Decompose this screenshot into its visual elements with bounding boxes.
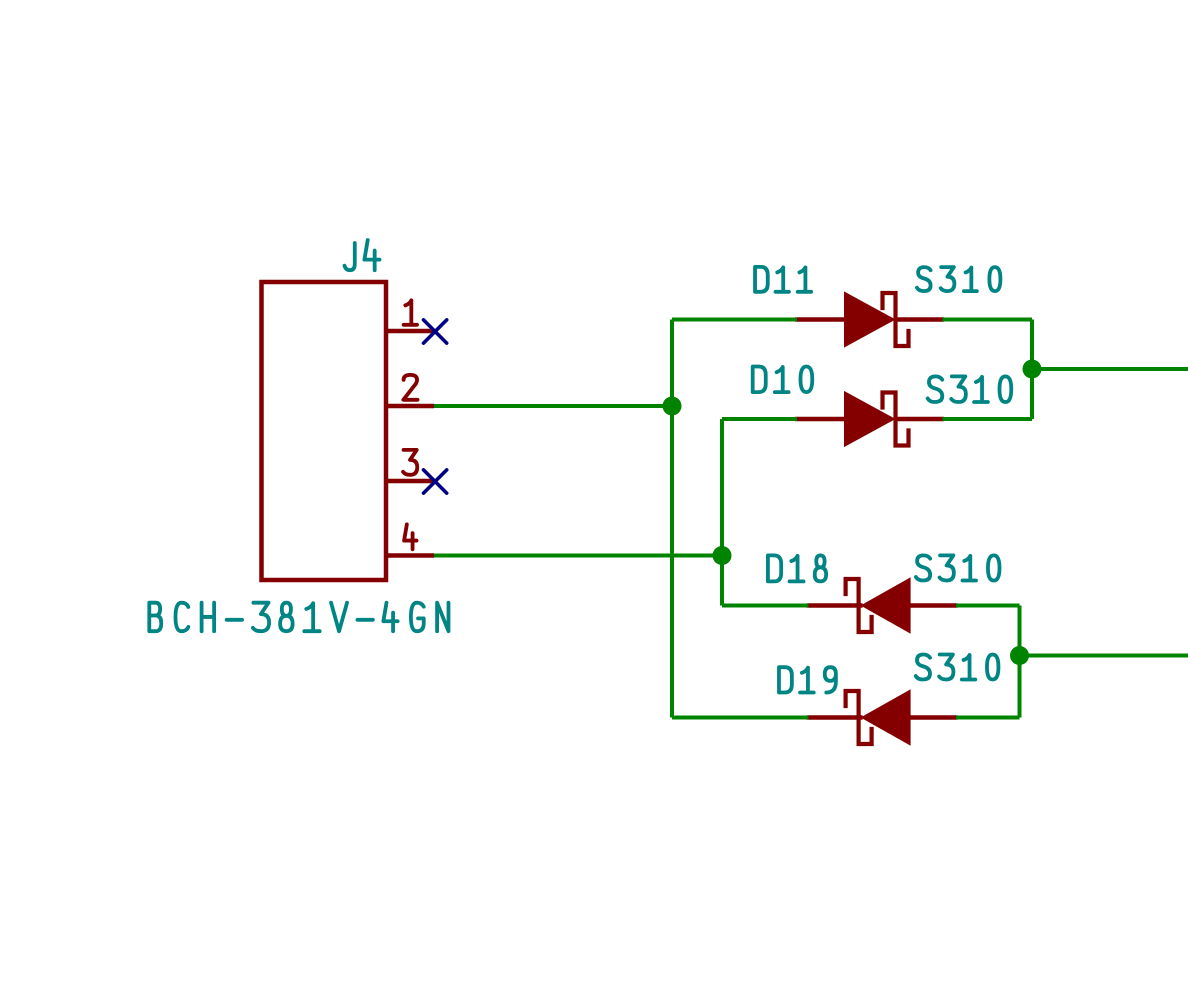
junction output top bbox=[1023, 360, 1042, 379]
pin 4 of J4 bbox=[386, 553, 434, 558]
no-connect X on pin 3 bbox=[424, 470, 447, 493]
diode D19 (S310) bbox=[807, 715, 863, 720]
diode D10 (S310) bbox=[795, 417, 845, 422]
pin 2 of J4 bbox=[386, 404, 434, 409]
pin number 4 bbox=[404, 524, 416, 549]
value label S310 of D10 bbox=[928, 376, 943, 402]
pin number 1 bbox=[404, 300, 417, 324]
value label S310 of D19 bbox=[916, 655, 930, 680]
diode D11 (S310) bbox=[795, 317, 845, 322]
pin number 3 bbox=[403, 450, 417, 475]
no-connect X on pin 1 bbox=[424, 320, 447, 343]
reference label J4 bbox=[345, 243, 355, 270]
wire D18 row right bbox=[956, 604, 1020, 608]
wire vertical right bottom bbox=[1018, 606, 1022, 718]
junction output bottom bbox=[1010, 646, 1029, 665]
wire pin4 to bus bbox=[434, 554, 722, 558]
wire vertical bus from pin4 bbox=[720, 419, 724, 606]
wire vertical bus from pin2 bbox=[670, 320, 674, 718]
wire D10 row right bbox=[943, 417, 1033, 421]
wire output top bbox=[1032, 367, 1188, 371]
wire output bottom bbox=[1020, 654, 1188, 658]
wire pin2 to bus bbox=[434, 404, 672, 408]
wire D18 row left bbox=[722, 604, 809, 608]
junction at pin2 bus bbox=[663, 397, 682, 416]
value label S310 of D11 bbox=[917, 267, 931, 291]
pin 1 of J4 bbox=[386, 329, 434, 334]
wire D10 row left bbox=[722, 417, 797, 421]
reference label D11 bbox=[755, 267, 768, 292]
junction at pin4 bus bbox=[713, 546, 732, 565]
diode D18 (S310) bbox=[807, 603, 863, 608]
value label S310 of D18 bbox=[916, 555, 930, 580]
pin number 2 bbox=[403, 375, 417, 400]
wire vertical right top bbox=[1030, 320, 1034, 420]
wire D19 row left bbox=[672, 716, 809, 720]
reference label D10 bbox=[753, 367, 766, 393]
reference label D18 bbox=[768, 555, 781, 581]
wire D19 row right bbox=[956, 716, 1020, 720]
reference label D19 bbox=[779, 667, 792, 692]
value label BCH-381V-4GN bbox=[149, 603, 161, 632]
wire D11 row left bbox=[672, 318, 797, 322]
pin 3 of J4 bbox=[386, 479, 434, 484]
wire D11 row right bbox=[943, 318, 1033, 322]
connector J4 body bbox=[262, 282, 387, 580]
